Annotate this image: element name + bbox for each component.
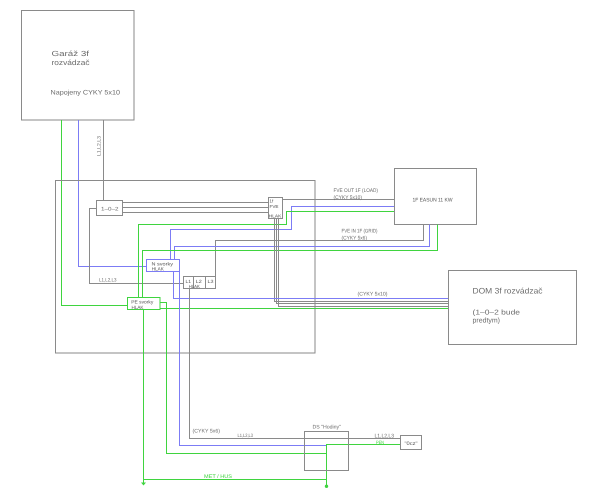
wire L1,L2,L3 from 1-0-2 left side down to HLAK L1 terminal	[90, 209, 184, 284]
wire L1 FVE bottom to DOM	[275, 219, 449, 302]
wire phase 1 from 1-0-2 to FVE switch	[123, 202, 269, 204]
wire PEN green junction to 0cz	[327, 445, 401, 487]
wire phase 3 from 1-0-2 to FVE switch	[123, 212, 269, 214]
svg-text:Garáž 3f: Garáž 3f	[52, 49, 91, 58]
svg-text:predtym): predtym)	[473, 317, 501, 325]
wire PE green PE svorky right side down to PEN junction	[160, 303, 327, 454]
svg-text:FVE: FVE	[270, 204, 279, 209]
svg-text:Napojeny CYKY 5x10: Napojeny CYKY 5x10	[51, 90, 121, 97]
wire PE green Garáž down to PE svorky	[62, 120, 128, 306]
svg-text:(CYKY 5x6): (CYKY 5x6)	[193, 429, 221, 435]
svg-text:DOM 3f rozvádzač: DOM 3f rozvádzač	[473, 287, 543, 296]
earth marker right dot	[325, 485, 328, 488]
svg-text:PEN: PEN	[376, 440, 384, 446]
svg-text:rozvádzač: rozvádzač	[52, 58, 90, 67]
svg-text:L1,L2,L3: L1,L2,L3	[97, 136, 103, 156]
svg-text:(CYKY 5x10): (CYKY 5x10)	[358, 292, 388, 298]
svg-text:FVE IN 1F (GRID): FVE IN 1F (GRID)	[342, 229, 378, 235]
box "0cz"	[401, 436, 422, 450]
svg-text:PE svorky: PE svorky	[131, 299, 154, 305]
earth marker left arrowhead	[141, 483, 146, 486]
svg-text:DS "Hodiny": DS "Hodiny"	[313, 425, 342, 431]
svg-text:HLAK: HLAK	[189, 284, 201, 289]
wire FVE OUT PE green EASUN to PE svorky	[139, 212, 395, 298]
wire N blue N svorky down to PEN junction	[180, 272, 327, 446]
box DS "Hodiny"	[305, 432, 349, 471]
wire N blue N svorky to DOM	[174, 272, 449, 299]
wire L1,L2,L3 Garáž down to 1-0-2 switch	[103, 120, 105, 201]
box Garáž 3f rozvádzač	[22, 11, 135, 121]
svg-text:L1,L2,L3: L1,L2,L3	[375, 434, 395, 440]
terminal block L1 L2 L3 HLAK	[184, 277, 216, 289]
wire PE green PE svorky bottom down to earth arrow	[143, 310, 145, 484]
wire L2 FVE bottom to DOM	[277, 219, 449, 304]
svg-text:(1–0–2 bude: (1–0–2 bude	[473, 309, 521, 317]
terminal block PE svorky HLAK	[128, 298, 161, 310]
wire FVE OUT N blue EASUN to N svorky	[171, 207, 395, 260]
switch 1f FVE HLAK	[269, 198, 283, 219]
svg-text:L1,L2,L3: L1,L2,L3	[238, 433, 254, 439]
svg-text:1–0–2: 1–0–2	[101, 207, 119, 213]
wire FVE IN PE green EASUN bottom to PE svorky	[143, 225, 438, 298]
inverter 1F EASUN 11 KW	[395, 169, 477, 225]
wire L1,L2,L3 gray HLAK terminal down to DS Hodiny and 0cz	[190, 289, 401, 439]
divider L1/L2	[193, 277, 195, 289]
box DOM 3f rozvádzač	[449, 271, 577, 345]
svg-text:HLAK: HLAK	[132, 305, 145, 311]
big enclosure rectangle	[56, 181, 316, 354]
wire earth MET / HUS green line	[144, 479, 327, 481]
svg-text:(CYKY 5x6): (CYKY 5x6)	[342, 236, 368, 242]
wire PE green PE svorky to DOM	[160, 308, 449, 310]
wire phase 2 from 1-0-2 to FVE switch	[123, 207, 269, 209]
svg-text:HLAK: HLAK	[269, 213, 282, 218]
svg-text:FVE OUT 1F (LOAD): FVE OUT 1F (LOAD)	[334, 188, 379, 194]
svg-text:N svorky: N svorky	[152, 261, 174, 267]
wire N blue Garáž down to N svorky	[79, 120, 147, 267]
svg-text:MET / HUS: MET / HUS	[204, 474, 233, 480]
switch 1-0-2	[97, 201, 123, 216]
svg-text:L3: L3	[208, 279, 215, 284]
divider L2/L3	[205, 277, 207, 289]
svg-text:(CYKY 5x10): (CYKY 5x10)	[334, 195, 363, 201]
wire FVE IN L gray EASUN bottom to HLAK L3 terminal	[216, 225, 424, 277]
wire FVE OUT L gray FVE switch to EASUN	[283, 199, 395, 201]
terminal block N svorky HLAK	[147, 260, 180, 272]
svg-text:L1,L2,L3: L1,L2,L3	[99, 278, 117, 284]
wire L3 FVE bottom to DOM	[279, 219, 449, 307]
svg-text:HLAK: HLAK	[152, 267, 165, 273]
wire FVE IN N blue EASUN bottom to N svorky	[175, 225, 430, 260]
svg-text:"0cz": "0cz"	[405, 441, 418, 447]
svg-text:1F EASUN 11 KW: 1F EASUN 11 KW	[413, 198, 453, 204]
